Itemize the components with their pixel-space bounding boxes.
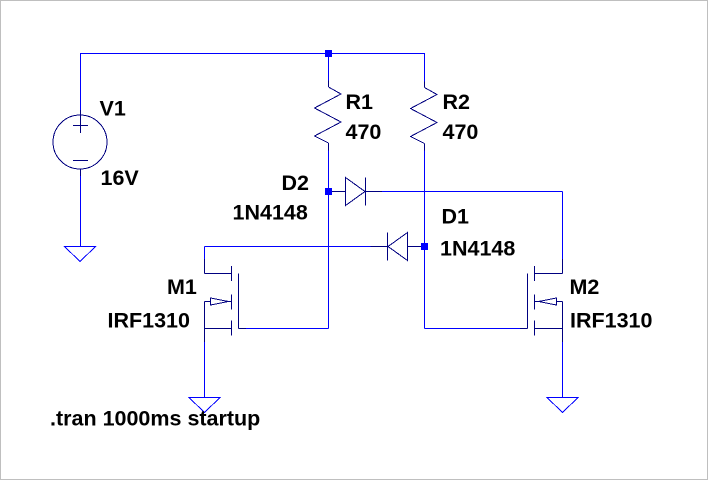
svg-text:IRF1310: IRF1310 [570,309,653,333]
resistor R2 [411,82,438,151]
svg-text:1N4148: 1N4148 [233,201,308,225]
svg-text:M1: M1 [167,275,197,299]
svg-text:R2: R2 [443,90,471,114]
ground under V1 [65,247,96,262]
wire D1 cathode to M1 drain [205,247,371,260]
mosfet M2 [520,259,563,342]
ground under M1 [189,398,220,413]
wire V1 to ground [80,176,82,247]
wire R1 bottom to M1 gate corner [246,151,329,329]
svg-text:.tran 1000ms startup: .tran 1000ms startup [50,407,260,431]
diode D2 [332,178,382,206]
svg-text:16V: 16V [101,166,140,190]
wire M1 source to ground [204,342,206,398]
svg-text:V1: V1 [100,97,126,121]
node junction on R1 line at D2 anode [325,188,332,195]
wire M2 source to ground [562,342,564,398]
svg-text:470: 470 [443,120,479,144]
wire top rail V1 to R2 [81,53,425,110]
wire R1 top stub [328,53,330,81]
svg-text:R1: R1 [346,90,374,114]
svg-text:1N4148: 1N4148 [440,237,515,261]
mosfet M1 [205,259,247,342]
node junction on R2 line at D1 anode [421,243,428,250]
diode D1 [371,233,422,261]
svg-text:D1: D1 [442,205,470,229]
svg-text:IRF1310: IRF1310 [108,309,191,333]
ground under M2 [547,398,578,413]
svg-text:M2: M2 [570,275,600,299]
node junction N001 on top rail [325,50,332,57]
wire D2 cathode to M2 drain [382,192,563,260]
wire R2 bottom to M2 gate corner [425,151,521,329]
svg-text:470: 470 [346,120,382,144]
voltage source V1 [53,110,107,176]
resistor R1 [315,81,342,151]
svg-text:D2: D2 [282,171,310,195]
